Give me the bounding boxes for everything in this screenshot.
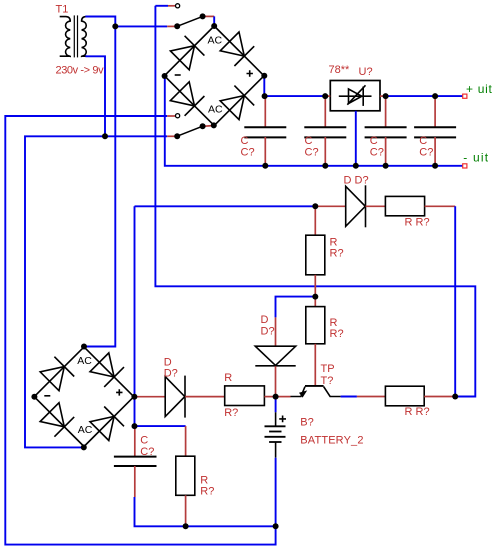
node B junction (dot)	[102, 133, 108, 139]
svg-text:R?: R?	[330, 328, 344, 340]
transistor Q1 emitter	[291, 387, 306, 397]
wire node C corner down through bridge2 plus to bottom	[134, 206, 136, 426]
wire node A down to lower bridge AC top	[84, 26, 115, 346]
svg-text:R: R	[224, 372, 232, 384]
svg-text:C: C	[241, 135, 249, 147]
resistor R7 bottom pin	[185, 495, 187, 526]
terminal - uit	[463, 164, 467, 168]
node -rail junctions (dot)	[432, 163, 438, 169]
svg-text:U?: U?	[359, 66, 373, 78]
switch S2 open contact pin	[167, 115, 175, 117]
diode D4 anode pin	[134, 396, 165, 398]
diode D3	[255, 346, 295, 366]
svg-text:D D?: D D?	[344, 174, 369, 186]
capacitor C1 bottom pin	[264, 137, 266, 166]
resistor R4	[306, 307, 325, 344]
capacitor C1 top pin	[264, 96, 266, 127]
node D junction (dot)	[312, 294, 318, 300]
resistor R3 bottom pin	[314, 275, 316, 297]
node bridge2 AC top (dot)	[81, 344, 87, 350]
regulator pin 3	[380, 95, 386, 97]
svg-text:+ uit: + uit	[466, 82, 493, 96]
resistor R6	[385, 386, 424, 406]
switch S1 pole pin	[167, 25, 175, 27]
node bridge1 AC bottom (dot)	[211, 122, 217, 128]
resistor R4 top pin	[314, 297, 316, 307]
label plus bridge2	[116, 389, 122, 395]
svg-text:BATTERY_2: BATTERY_2	[300, 434, 363, 446]
transistor Q1 base pin already drawn; base bar	[305, 385, 324, 387]
node A junction (dot)	[112, 23, 118, 29]
capacitor C4	[414, 127, 456, 137]
resistor R6 left pin	[357, 396, 386, 398]
svg-text:AC: AC	[208, 35, 223, 47]
svg-text:AC: AC	[78, 424, 93, 436]
svg-text:C: C	[305, 135, 313, 147]
node G junction (dot)	[132, 423, 138, 429]
diode D2 anode pin	[315, 205, 345, 207]
capacitor C3	[365, 127, 407, 137]
switch S2 lever (dot)	[174, 133, 180, 139]
resistor R5 right pin	[264, 396, 275, 398]
wire battery minus down to bottom rail	[275, 458, 277, 527]
node F junction (dot)	[452, 394, 458, 400]
wire -rail corner to node C	[135, 205, 316, 207]
capacitor C3 top pin	[385, 96, 387, 127]
node -rail junctions (dot)	[353, 163, 359, 169]
resistor R3	[306, 235, 325, 275]
wire +rail right segment to +uit	[386, 95, 463, 97]
wire collector to R6	[341, 396, 357, 398]
transformer T1	[60, 15, 87, 57]
node +rail junctions (dot)	[262, 93, 268, 99]
regulator pin 1	[325, 95, 330, 97]
wire S1 throw to bridge1 top	[213, 16, 215, 26]
switch S2 pole pin	[167, 135, 175, 137]
switch S1 lever (dot)	[200, 13, 206, 19]
transistor Q1 emitter arrow	[299, 390, 307, 397]
regulator pin 2 ground to -rail	[355, 111, 357, 166]
capacitor C5 bottom pin	[134, 466, 136, 497]
resistor R7	[176, 456, 195, 495]
wire bridge1 minus to -rail	[165, 76, 463, 166]
transistor Q1 collector	[324, 387, 341, 397]
wire node G to R7	[135, 425, 186, 427]
switch S2 throw pin to bridge1 bottom	[205, 125, 213, 128]
resistor R2h right pin	[425, 205, 456, 207]
svg-text:- uit: - uit	[463, 151, 489, 165]
capacitor C4 top pin	[434, 96, 436, 127]
terminal + uit	[463, 94, 467, 98]
svg-text:C?: C?	[305, 146, 319, 158]
svg-text:B?: B?	[300, 417, 313, 429]
node +rail junctions (dot)	[383, 93, 389, 99]
svg-text:C?: C?	[241, 146, 255, 158]
resistor R7 top pin	[185, 426, 187, 456]
svg-text:C?: C?	[370, 146, 384, 158]
bridge rectifier BR2	[34, 347, 134, 447]
svg-text:R R?: R R?	[405, 406, 430, 418]
battery B? BATTERY_2	[265, 412, 286, 457]
node bridge1 plus (dot)	[261, 73, 267, 79]
svg-text:230v -> 9v: 230v -> 9v	[56, 65, 105, 77]
svg-text:C: C	[140, 435, 148, 447]
node I junction (dot)	[273, 523, 279, 529]
capacitor C2 bottom pin	[324, 137, 326, 166]
svg-text:C?: C?	[140, 446, 154, 458]
wire node A to switch S1 pole	[115, 25, 167, 27]
node bridge2 AC bottom (dot)	[81, 444, 87, 450]
resistor R2h	[385, 196, 424, 215]
svg-text:C: C	[370, 135, 378, 147]
svg-text:AC: AC	[77, 355, 92, 367]
wire from S2 open contact down left side to battery minus	[5, 116, 275, 545]
node +rail junctions (dot)	[432, 93, 438, 99]
svg-text:78**: 78**	[329, 64, 351, 76]
wire node E to battery	[275, 397, 277, 413]
node bridge2 plus (dot)	[131, 394, 137, 400]
node bridge1 minus (dot)	[162, 73, 168, 79]
diode D2	[346, 185, 366, 227]
svg-text:R?: R?	[224, 407, 238, 419]
resistor R5	[225, 386, 265, 406]
switch S1 lever	[177, 16, 202, 26]
resistor R4 bottom pin (to transistor base)	[314, 344, 316, 386]
label minus bridge1	[175, 74, 181, 76]
diode D2 cathode pin	[366, 205, 386, 207]
node -rail junctions (dot)	[262, 163, 268, 169]
resistor R3 top pin	[314, 206, 316, 235]
svg-text:R?: R?	[200, 485, 214, 497]
svg-text:T?: T?	[321, 375, 334, 387]
capacitor C2	[304, 127, 346, 137]
wire bridge1 plus to +rail	[263, 76, 265, 96]
svg-text:D?: D?	[164, 367, 178, 379]
diode D4 cathode pin	[185, 396, 225, 398]
label minus bridge2	[44, 395, 50, 397]
resistor R6 right pin	[424, 396, 455, 398]
svg-text:C: C	[419, 135, 427, 147]
switch S1 throw pin	[205, 15, 215, 17]
svg-text:D?: D?	[261, 326, 275, 338]
wire node D to diode D3	[276, 297, 316, 318]
capacitor C2 top pin	[324, 96, 326, 127]
bridge rectifier BR1	[164, 26, 264, 126]
transistor Q1 emitter pin to node E	[276, 396, 291, 398]
node H junction (dot)	[183, 523, 189, 529]
svg-text:R: R	[330, 317, 338, 329]
wire secondary top to node A	[85, 17, 115, 27]
svg-text:T1: T1	[56, 4, 69, 16]
node E junction (dot)	[273, 394, 279, 400]
wire R2h to right bus	[454, 206, 456, 396]
capacitor C5	[114, 457, 157, 466]
node -rail junctions (dot)	[383, 163, 389, 169]
svg-text:R R?: R R?	[405, 216, 430, 228]
label plus bridge1	[247, 70, 253, 76]
node +rail junctions (dot)	[322, 93, 328, 99]
node -rail junctions (dot)	[322, 163, 328, 169]
svg-text:TP: TP	[321, 363, 335, 375]
node bridge2 minus (dot)	[31, 394, 37, 400]
wire S1 throw down right side to output network	[155, 6, 475, 397]
diode D3 cathode pin	[275, 366, 277, 396]
wire S1 open contact	[155, 5, 168, 7]
node bridge1 AC top (dot)	[211, 23, 217, 29]
capacitor C4 bottom pin	[434, 137, 436, 166]
svg-text:C?: C?	[419, 146, 433, 158]
voltage regulator U1 78**	[330, 81, 380, 111]
diode D4	[165, 376, 185, 418]
node C junction (dot)	[312, 203, 318, 209]
diode D3 anode pin	[275, 317, 277, 346]
svg-text:R?: R?	[330, 247, 344, 259]
wire C5 to bottom rail	[135, 497, 276, 526]
switch S1 lever (dot)	[174, 23, 180, 29]
switch S2 lever	[177, 126, 202, 136]
capacitor C3 bottom pin	[385, 137, 387, 166]
svg-text:D: D	[261, 314, 269, 326]
wire +rail left segment	[264, 95, 325, 97]
wire from S2 pole down to lower bridge AC bottom	[25, 136, 167, 447]
battery plus sign	[279, 416, 286, 423]
svg-text:AC: AC	[208, 103, 223, 115]
wire secondary bottom	[85, 56, 105, 136]
switch S2 lever (dot)	[200, 123, 206, 129]
capacitor C1	[244, 127, 286, 137]
capacitor C5 top pin	[134, 426, 136, 456]
switch S1 open contact pin	[168, 5, 175, 7]
